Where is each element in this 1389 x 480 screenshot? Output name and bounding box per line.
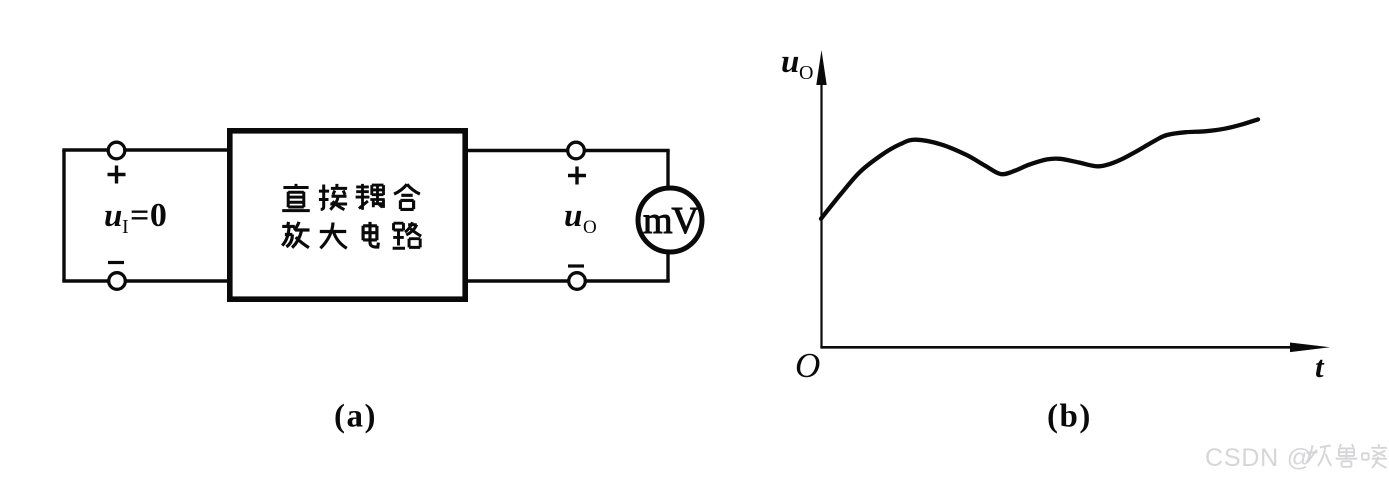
minus sign input (108, 261, 124, 264)
terminal output - (569, 273, 586, 290)
svg-text:(b): (b) (1047, 399, 1092, 435)
wire meter vertical top (666, 151, 669, 191)
terminal input + (108, 142, 125, 159)
watermark char 妖 (1307, 445, 1332, 466)
wire input top (62, 148, 229, 151)
svg-text:u: u (564, 198, 582, 234)
label char 接 (319, 184, 347, 210)
label char 耦 (356, 184, 385, 210)
x-axis arrowhead (1290, 343, 1330, 353)
graph y-axis (820, 80, 822, 348)
svg-text:u: u (104, 198, 122, 234)
svg-text:(a): (a) (334, 399, 377, 435)
svg-text:u: u (781, 44, 799, 80)
drift curve (821, 119, 1258, 218)
wire output bottom (466, 279, 670, 282)
label char 直 (282, 184, 310, 211)
watermark char 喽 (1362, 444, 1387, 468)
svg-text:O: O (583, 217, 597, 238)
svg-text:I: I (122, 216, 129, 238)
minus sign output (568, 264, 584, 267)
amplifier block box (230, 131, 465, 299)
label char 大 (320, 223, 347, 249)
svg-text:CSDN @: CSDN @ (1205, 444, 1313, 472)
label char 合 (394, 184, 420, 209)
graph x-axis (820, 346, 1300, 349)
svg-text:mV: mV (643, 200, 700, 242)
label char 路 (393, 222, 422, 248)
wire input bottom (62, 279, 229, 282)
terminal input - (109, 273, 126, 290)
terminal output + (568, 142, 585, 159)
watermark char 兽 (1336, 444, 1358, 467)
wire output top (466, 149, 670, 152)
plus sign input-side (108, 166, 126, 184)
label char 放 (282, 222, 309, 248)
svg-text:=0: =0 (130, 197, 167, 234)
svg-text:t: t (1315, 349, 1325, 384)
wire left vertical (62, 150, 65, 281)
meter mV (638, 188, 702, 252)
label char 电 (363, 222, 378, 247)
svg-text:O: O (795, 346, 820, 385)
y-axis arrowhead (816, 50, 826, 85)
svg-text:O: O (799, 62, 813, 84)
plus sign input (568, 167, 586, 185)
wire meter vertical bottom (666, 250, 669, 281)
